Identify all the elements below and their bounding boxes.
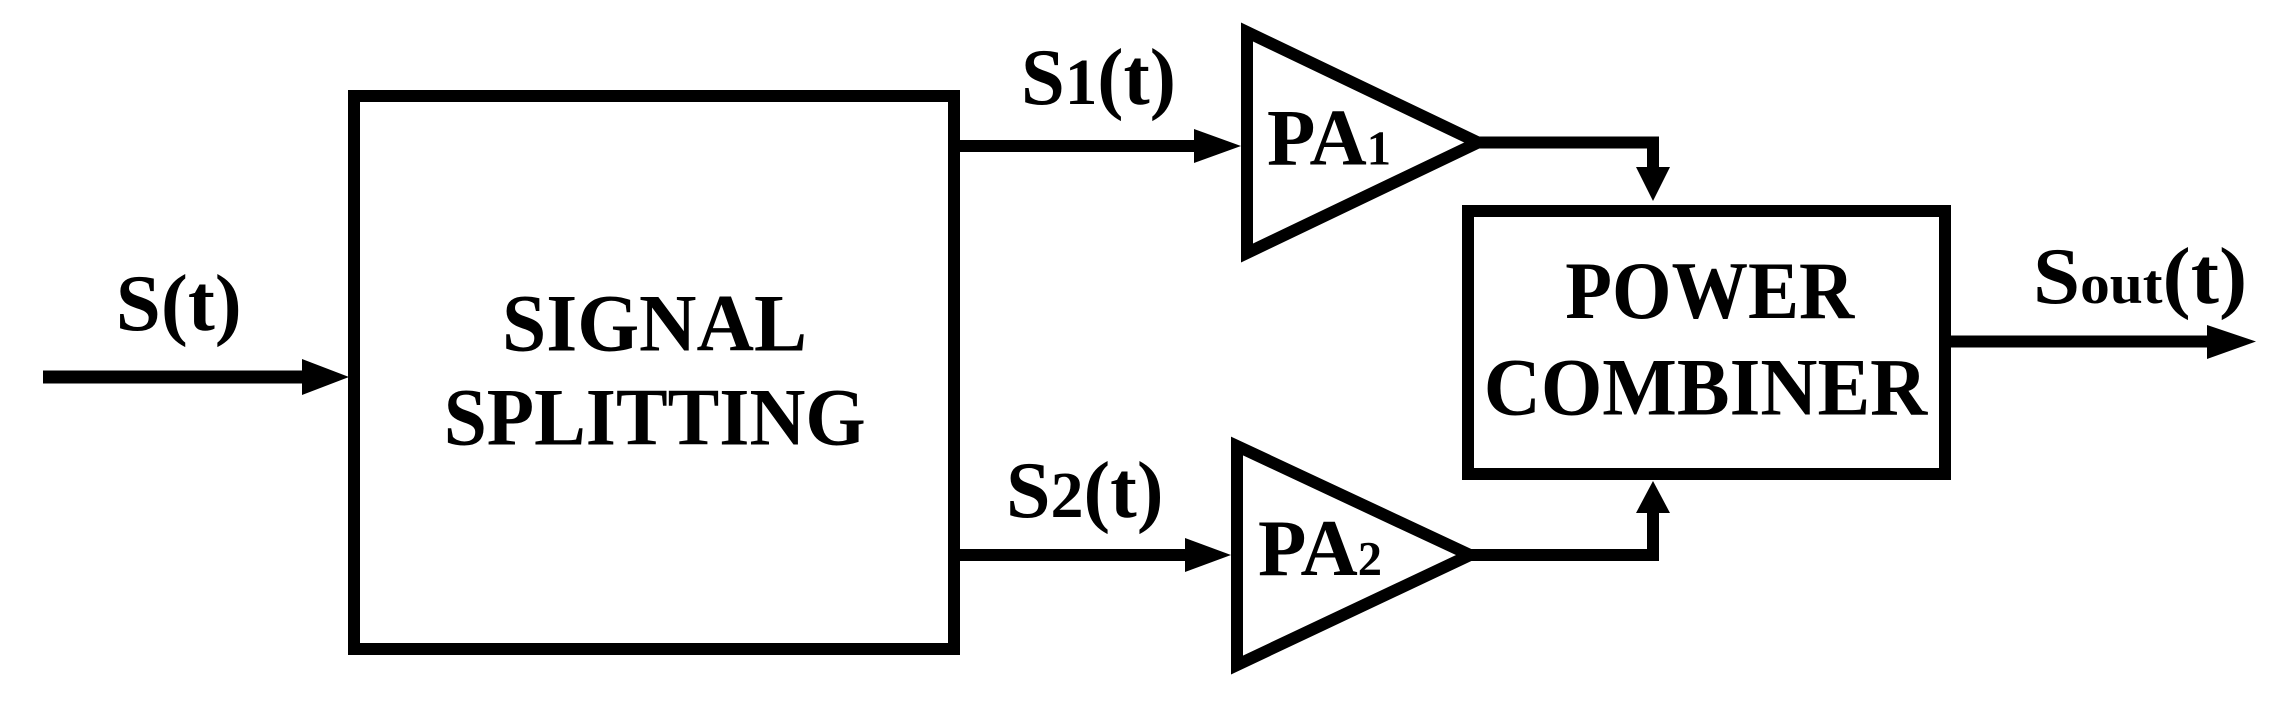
amplifier PA2 <box>1237 446 1470 665</box>
svg-text:SPLITTING: SPLITTING <box>444 371 866 462</box>
block SIGNAL SPLITTING <box>354 96 954 649</box>
svg-text:Sout(t): Sout(t) <box>2033 233 2247 321</box>
wire input <box>43 359 349 395</box>
block POWER COMBINER <box>1468 211 1945 474</box>
svg-text:COMBINER: COMBINER <box>1484 342 1928 433</box>
svg-text:S(t): S(t) <box>116 260 242 348</box>
wire output <box>1945 325 2256 359</box>
wire splitter to PA2 <box>950 538 1231 572</box>
amplifier PA1 <box>1247 32 1478 253</box>
svg-text:S1(t): S1(t) <box>1021 34 1176 122</box>
wire PA2 to combiner <box>1470 481 1670 555</box>
wire PA1 to combiner <box>1478 143 1670 202</box>
svg-text:POWER: POWER <box>1565 245 1855 336</box>
svg-text:S2(t): S2(t) <box>1006 447 1164 535</box>
wire splitter to PA1 <box>950 129 1241 163</box>
svg-text:SIGNAL: SIGNAL <box>502 278 807 369</box>
